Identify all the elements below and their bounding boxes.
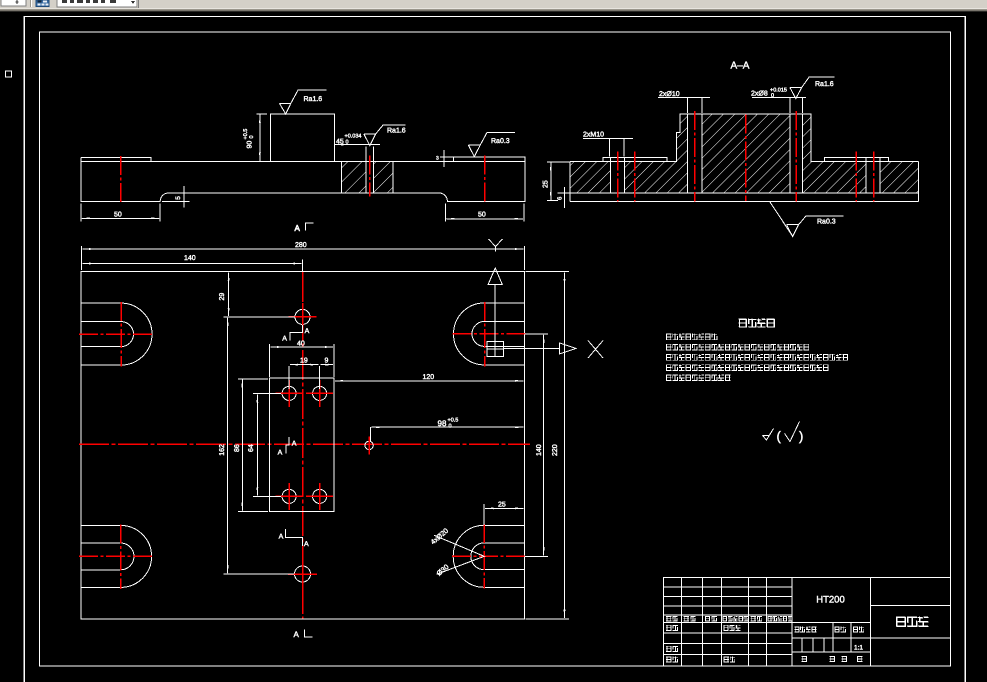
roughness Ra1.6 on A-A boss [790, 77, 835, 98]
toolbar bottom ridge [0, 8, 987, 9]
dimension 64 [253, 393, 281, 496]
label 签名 [751, 616, 763, 622]
label 批准 [723, 657, 735, 663]
bolt hole 3 [276, 483, 303, 510]
dimension 220 right [525, 271, 569, 618]
tech line 2 铸件公差 [666, 344, 809, 351]
svg-text:A: A [305, 328, 310, 335]
svg-text:3: 3 [436, 156, 439, 162]
dimension 90 +0.5/0 [257, 114, 268, 161]
bolt hole 2 [306, 380, 333, 407]
svg-text:0: 0 [771, 93, 774, 99]
label 2xM10 left [583, 138, 633, 156]
roughness Ra0.3 right [468, 132, 515, 156]
dimension 6 A-A [558, 187, 571, 208]
front view slot hole edge lines [366, 147, 374, 194]
bottom center hole [288, 560, 317, 589]
dimension 140 right [525, 334, 549, 556]
svg-text:+0.034: +0.034 [345, 134, 362, 140]
plan plate outline [81, 271, 524, 618]
left grid rows [664, 587, 792, 655]
dimension 86 [238, 379, 268, 512]
tech line 5 未注圆角 [666, 375, 731, 382]
svg-text:A: A [294, 630, 300, 639]
svg-text:29: 29 [219, 293, 226, 301]
dimension 5 step [162, 186, 190, 207]
svg-text:25: 25 [498, 501, 506, 508]
tech requirements title 技术要求 [739, 319, 775, 328]
dimension 140 top [301, 260, 303, 272]
label 标记 [666, 616, 677, 622]
A-A hole voids [611, 114, 880, 194]
plan main centerline vertical [302, 272, 304, 618]
UCS Y axis [488, 268, 502, 342]
label 标准化 [723, 625, 740, 631]
U-slot bottom-right [453, 525, 524, 587]
label 审核 [666, 646, 678, 652]
A-A hatched boss [677, 114, 812, 161]
svg-text:86: 86 [234, 444, 241, 452]
svg-text:98: 98 [438, 419, 447, 428]
svg-text:A: A [304, 541, 309, 548]
svg-text:120: 120 [423, 374, 435, 381]
dimension 280 [82, 246, 525, 270]
front view boss [270, 114, 334, 161]
roughness Ra1.6 on boss [279, 90, 326, 114]
label 工艺 [666, 657, 678, 663]
label 张2 [857, 656, 862, 662]
front view local section hatch [342, 162, 366, 193]
svg-text:0: 0 [449, 424, 452, 430]
title block outer [664, 578, 951, 667]
dimension 19 and 9 [289, 366, 320, 389]
layout grip square [6, 71, 12, 77]
svg-text:140: 140 [536, 444, 543, 456]
svg-text:90: 90 [247, 141, 254, 149]
label 比例 [853, 627, 864, 633]
dimension 45 +0.034/0 [335, 144, 380, 146]
label 2xO10 [658, 98, 710, 114]
tech line 4 陷及严重 [666, 364, 829, 371]
label 年月日 [767, 616, 792, 622]
svg-text:A: A [278, 450, 283, 457]
A-A hatched base [570, 162, 918, 194]
A-A hole edge lines [611, 114, 880, 193]
svg-text:25: 25 [543, 180, 550, 188]
part name 夹具体 [896, 616, 928, 626]
tech line 1 时效处理 [666, 334, 718, 341]
UCS origin box [487, 342, 504, 357]
center rectangle [269, 378, 334, 512]
svg-text:A: A [295, 224, 301, 233]
UCS X letter [588, 341, 603, 359]
right column rows [870, 605, 950, 637]
dimension 29 [224, 316, 296, 318]
section mark A lower jog [285, 529, 302, 546]
roughness Ra1.6 on slot [364, 125, 406, 146]
UCS X axis [504, 343, 577, 354]
U-slot top-right [454, 303, 525, 365]
svg-text:Ra1.6: Ra1.6 [387, 128, 406, 135]
svg-text:A: A [292, 441, 297, 448]
toolbar right edge [138, 0, 140, 10]
dimension 25 bottom right [483, 504, 485, 525]
label 分区 [705, 616, 717, 622]
A-A raised strip right [824, 158, 888, 162]
svg-text:0: 0 [249, 135, 255, 138]
A-A raised strip left [603, 157, 667, 161]
U-slot bottom-left centerlines [79, 524, 153, 589]
svg-text:0: 0 [346, 140, 349, 146]
toolbar combo 1 [1, 0, 26, 6]
top center hole [289, 303, 317, 331]
dimension 162 [224, 573, 295, 575]
tech line 3 铸件表面 [666, 354, 848, 361]
svg-text:50: 50 [478, 212, 486, 219]
dimension 40 [269, 344, 334, 377]
dimension 50 right [446, 204, 524, 222]
svg-text:1:1: 1:1 [854, 645, 863, 652]
front view centerline right [484, 156, 486, 203]
toolbar layer icon [36, 0, 49, 7]
svg-text:9: 9 [325, 358, 329, 365]
svg-text:): ) [799, 429, 803, 444]
U-slot bottom-right centerlines [452, 524, 526, 589]
svg-text:64: 64 [248, 444, 255, 452]
svg-text:A: A [279, 534, 284, 541]
svg-text:Ra1.6: Ra1.6 [304, 96, 323, 103]
label 更改文件号 [723, 616, 749, 622]
svg-text:45: 45 [336, 139, 344, 146]
toolbar separator [30, 0, 32, 7]
U-slot top-left [81, 303, 152, 365]
svg-text:280: 280 [295, 242, 307, 249]
dimension 3 step [440, 150, 454, 167]
section mark A center jog [286, 437, 289, 453]
label 设计 [666, 625, 678, 631]
title block verticals main [792, 578, 870, 667]
front view plate outline [81, 157, 525, 201]
svg-text:2xØ10: 2xØ10 [659, 90, 680, 98]
toolbar combo 2 [57, 0, 137, 7]
UCS Y letter [489, 239, 503, 252]
plan main centerline horizontal [79, 443, 530, 445]
svg-text:140: 140 [184, 255, 196, 262]
bolt hole 4 [306, 483, 333, 510]
svg-text:40: 40 [297, 341, 305, 348]
svg-text:2xØ8: 2xØ8 [751, 90, 768, 98]
svg-text:HT200: HT200 [816, 595, 845, 606]
U-slot top-right centerlines [453, 302, 527, 367]
svg-text:Ra0.3: Ra0.3 [491, 138, 510, 145]
svg-text:(: ( [777, 429, 782, 444]
svg-text:2xM10: 2xM10 [583, 132, 604, 139]
dimension 98 +0.5 [369, 427, 371, 441]
svg-text:19: 19 [300, 358, 308, 365]
roughness check small [763, 429, 774, 441]
section mark A upper jog [290, 325, 303, 340]
A-A body outline [570, 114, 918, 201]
U-slot bottom-left [81, 525, 152, 587]
leader 4xO20 [434, 535, 484, 574]
A-A centerlines red [618, 111, 874, 202]
left grid columns [681, 578, 766, 667]
label 阶段标记 [795, 627, 817, 633]
svg-text:Ra0.3: Ra0.3 [817, 219, 836, 226]
label 张 [830, 656, 835, 662]
svg-text:220: 220 [552, 444, 559, 456]
label 处数 [684, 616, 696, 622]
toolbar panel [0, 0, 138, 10]
svg-text:50: 50 [114, 211, 122, 218]
dimension 50 left [81, 204, 160, 222]
label 第 [842, 656, 847, 662]
front view centerline slot [369, 156, 371, 197]
dimension 25 A-A [547, 162, 570, 201]
middle column rows [792, 622, 870, 652]
svg-text:A: A [282, 336, 287, 343]
svg-text:162: 162 [219, 444, 226, 456]
toolbar strip background [0, 0, 987, 12]
label 共 [802, 656, 807, 662]
small hole on centerline [365, 437, 373, 455]
label 2xO8 +0.015 [752, 98, 806, 114]
label 重量 [834, 627, 845, 633]
U-slot top-left centerlines [79, 302, 153, 367]
middle small cells [802, 638, 851, 652]
svg-text:Ra1.6: Ra1.6 [815, 81, 834, 88]
middle header cells [833, 622, 851, 638]
svg-text:5: 5 [175, 196, 182, 200]
bolt hole 1 [276, 380, 303, 407]
roughness Ra0.3 bottom leader [770, 202, 844, 237]
leader O30 [435, 563, 450, 578]
front view centerline left [120, 156, 122, 203]
dimension 120 [335, 380, 523, 382]
svg-text:A–A: A–A [731, 61, 750, 72]
